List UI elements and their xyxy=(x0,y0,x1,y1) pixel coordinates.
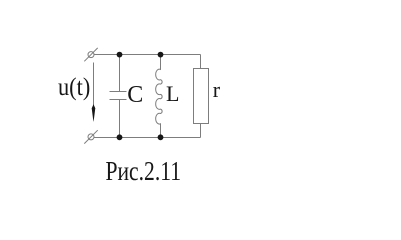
wire resistor branch top xyxy=(200,55,202,69)
svg-text:C: C xyxy=(127,82,143,108)
capacitor C plates xyxy=(110,92,127,100)
node junction top C xyxy=(117,52,123,58)
wire capacitor branch bottom xyxy=(119,100,121,138)
wire capacitor branch top xyxy=(119,55,121,92)
resistor r body xyxy=(194,69,209,124)
svg-text:Рис.2.11: Рис.2.11 xyxy=(106,156,182,186)
node junction top L xyxy=(158,52,164,58)
terminal top-left xyxy=(84,48,97,61)
wire resistor branch bottom xyxy=(200,124,202,138)
arrow u(t) head xyxy=(92,104,96,121)
wire bottom rail xyxy=(94,137,201,139)
inductor L coil with branch wires xyxy=(156,55,162,138)
node junction bottom C xyxy=(117,134,123,140)
arrow u(t) line xyxy=(93,63,95,108)
svg-text:u(t): u(t) xyxy=(58,74,90,101)
node junction bottom L xyxy=(158,134,164,140)
terminal bottom-left xyxy=(84,130,97,143)
svg-text:r: r xyxy=(213,77,221,102)
svg-text:L: L xyxy=(166,81,179,106)
wire top rail xyxy=(94,54,201,56)
